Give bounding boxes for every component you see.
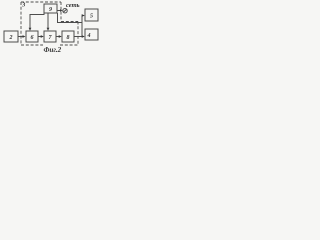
- dashed enclosure step edge: [61, 21, 78, 23]
- dashed enclosure top edge: [21, 1, 61, 3]
- svg-text:3: 3: [21, 3, 25, 9]
- svg-text:4: 4: [87, 33, 91, 39]
- dashed enclosure left edge: [20, 2, 22, 45]
- svg-text:сеть: сеть: [66, 2, 80, 9]
- wire block7 to block8: [56, 36, 61, 38]
- block 8: [62, 31, 74, 42]
- wire block2 to block6: [18, 36, 25, 38]
- block 9 (power supply): [44, 4, 57, 13]
- svg-text:6: 6: [31, 35, 34, 41]
- block 2: [4, 31, 18, 42]
- dashed enclosure right upper edge: [60, 2, 62, 22]
- svg-text:9: 9: [49, 7, 52, 13]
- wire block9 tee to block6: [30, 13, 44, 30]
- svg-text:5: 5: [90, 14, 93, 20]
- mains connector circle: [63, 9, 67, 13]
- wire block9 to mains connector: [57, 10, 62, 12]
- arrowhead into block8: [59, 35, 62, 38]
- arrowhead down into block6: [29, 28, 32, 31]
- svg-text:8: 8: [67, 35, 70, 41]
- wire block6 to block7: [38, 36, 43, 38]
- arrowhead into block5: [82, 14, 85, 17]
- arrowhead down into block7: [47, 28, 50, 31]
- wire block8 to block4: [74, 36, 84, 38]
- wire branch into block5: [82, 15, 84, 17]
- arrowhead into block7: [41, 35, 44, 38]
- wire vertical branch x82: [81, 16, 83, 37]
- dashed enclosure bottom edge: [21, 44, 43, 46]
- arrowhead into block4: [82, 35, 85, 38]
- block 5: [85, 9, 98, 21]
- block 7: [44, 31, 56, 42]
- dashed enclosure right lower edge: [77, 22, 79, 46]
- arrowhead into mains connector: [60, 9, 63, 11]
- wire block9 down to block7: [47, 13, 49, 30]
- block 6: [26, 31, 38, 42]
- wire block9 right feed to blocks 5 and 4: [58, 13, 83, 23]
- svg-text:2: 2: [9, 35, 13, 41]
- paper background: [0, 0, 100, 57]
- svg-text:Фиг.2: Фиг.2: [44, 46, 62, 54]
- arrowhead into block6 from block2: [23, 35, 26, 38]
- block 4: [85, 29, 98, 40]
